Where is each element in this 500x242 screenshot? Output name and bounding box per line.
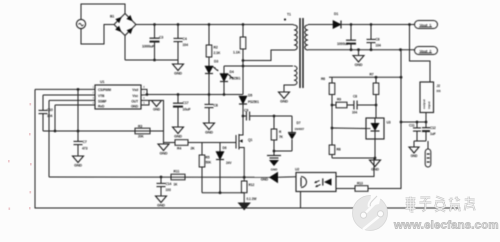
svg-text:104: 104 xyxy=(47,114,52,118)
svg-text:R4: R4 xyxy=(177,147,181,151)
capacitor C8 comp xyxy=(352,95,376,115)
ground GND6 xyxy=(152,101,162,112)
ground GND3 xyxy=(204,123,215,130)
resistor R2 2.1K xyxy=(206,25,221,58)
wire primary ground rail xyxy=(125,59,178,61)
svg-text:C9: C9 xyxy=(244,109,248,113)
svg-text:R9: R9 xyxy=(337,98,341,102)
svg-text:1000uF: 1000uF xyxy=(142,45,155,49)
capacitor C12 1uF xyxy=(422,122,436,141)
resistor R5 50K xyxy=(199,143,212,193)
svg-text:VTB: VTB xyxy=(98,94,105,98)
AC source V1 xyxy=(76,19,85,28)
ground GND2 xyxy=(173,127,184,134)
wire aux bottom xyxy=(284,85,294,92)
wire opto cathode xyxy=(336,188,355,190)
resistor R12 0.1 2W xyxy=(241,177,257,203)
watermark logo xyxy=(353,194,388,231)
wire sense line xyxy=(48,100,50,177)
svg-text:PS2501: PS2501 xyxy=(248,100,259,104)
svg-text:473: 473 xyxy=(82,147,88,151)
ground GND4 xyxy=(73,156,84,163)
svg-text:GND: GND xyxy=(174,72,182,76)
svg-text:C11: C11 xyxy=(409,124,415,128)
svg-text:Vsc: Vsc xyxy=(132,94,138,98)
capacitor C6 104 xyxy=(367,25,381,50)
svg-text:B1: B1 xyxy=(110,15,114,19)
wire pin2 left xyxy=(43,94,95,96)
svg-text:RvD: RvD xyxy=(98,105,105,109)
svg-text:GND: GND xyxy=(205,131,213,135)
resistor R8 xyxy=(329,145,341,158)
svg-text:C17: C17 xyxy=(183,101,189,105)
svg-text:R13: R13 xyxy=(357,182,363,186)
svg-text:50K: 50K xyxy=(206,161,212,165)
diode D5 PS2501 xyxy=(239,94,259,136)
svg-text:D5: D5 xyxy=(248,94,252,98)
wire aux winding top xyxy=(224,65,293,67)
transistor Q1 MOSFET xyxy=(234,116,253,177)
svg-text:D4: D4 xyxy=(230,70,234,74)
svg-text:GND: GND xyxy=(355,63,363,67)
wire IC gnd pin xyxy=(141,101,152,106)
resistor R13 xyxy=(355,182,368,192)
watermark chinese text xyxy=(406,197,475,212)
svg-text:GND: GND xyxy=(160,152,168,156)
wire opto collector line xyxy=(336,159,374,177)
wire cluster bottoms xyxy=(202,192,244,194)
capacitor C17 10uF xyxy=(173,95,191,128)
wire top rail xyxy=(136,24,293,26)
svg-text:1000uF: 1000uF xyxy=(337,42,350,46)
svg-text:GND: GND xyxy=(157,204,165,208)
svg-text:C12: C12 xyxy=(430,126,436,130)
svg-text:C6: C6 xyxy=(376,38,380,42)
svg-text:OUT: OUT xyxy=(131,100,138,104)
svg-text:C3: C3 xyxy=(159,36,163,40)
capacitor C9 xyxy=(243,109,292,121)
capacitor C7 473 xyxy=(74,89,88,156)
svg-text:GND: GND xyxy=(131,105,139,109)
resistor R6b 7K xyxy=(271,116,283,151)
ground GND9 xyxy=(239,203,250,210)
wire left frame xyxy=(35,89,460,208)
op-amp U1 PWM controller xyxy=(93,80,146,109)
capacitor C3 1000uF xyxy=(142,25,163,61)
wire output rail xyxy=(341,24,415,26)
resistor R3 xyxy=(135,125,150,139)
wire pin1 left xyxy=(35,88,95,90)
LED D3 xyxy=(205,57,218,95)
svg-text:C8: C8 xyxy=(353,95,357,99)
bridge rectifier B1 xyxy=(110,14,136,36)
resistor R1 1.1K xyxy=(233,25,246,55)
resistor R11 1K xyxy=(171,170,185,187)
svg-text:C8: C8 xyxy=(214,104,218,108)
zener D6 24V xyxy=(216,143,232,193)
wire OUT pin xyxy=(141,100,164,142)
wire to output module xyxy=(410,25,431,83)
resistor R7 divider xyxy=(370,73,379,119)
ground GND8 xyxy=(156,196,167,203)
wire caps gnd xyxy=(414,140,426,142)
svg-text:20K: 20K xyxy=(138,135,144,139)
optocoupler U2 xyxy=(295,168,336,192)
diode D1 xyxy=(333,12,341,29)
svg-text:D7: D7 xyxy=(297,121,301,125)
LED D4 PS2501 xyxy=(220,66,241,95)
node GND flag xyxy=(261,172,278,183)
zener D7 1N4007 xyxy=(288,116,305,151)
svg-text:C14: C14 xyxy=(166,182,172,186)
wire secondary top xyxy=(308,24,333,26)
svg-text:C4: C4 xyxy=(183,37,187,41)
wire AC bottom xyxy=(81,25,114,45)
wire secondary gnd rail xyxy=(332,157,375,159)
svg-text:D3: D3 xyxy=(214,60,218,64)
svg-text:D6: D6 xyxy=(223,146,227,150)
svg-text:GND: GND xyxy=(411,154,419,158)
svg-text:GND: GND xyxy=(174,135,182,139)
capacitor C4 104 xyxy=(174,25,189,61)
svg-text:GND: GND xyxy=(371,168,379,172)
svg-text:D1: D1 xyxy=(334,12,338,16)
svg-text:0.1 2W: 0.1 2W xyxy=(247,197,258,201)
wire primary bottom xyxy=(243,50,294,61)
svg-text:C7: C7 xyxy=(83,140,87,144)
svg-text:R5: R5 xyxy=(206,156,210,160)
fuse F1 xyxy=(425,141,431,167)
wire noise specks xyxy=(30,103,32,105)
svg-text:CS/PWM: CS/PWM xyxy=(98,88,111,92)
svg-text:Q1: Q1 xyxy=(248,138,253,142)
svg-text:U2: U2 xyxy=(295,168,299,172)
svg-text:R11: R11 xyxy=(174,170,180,174)
wire TL431 ref xyxy=(332,127,366,130)
svg-text:GND: GND xyxy=(153,108,161,112)
connector Vout_1 xyxy=(415,21,438,29)
wire R13 to rail xyxy=(368,50,401,189)
svg-text:104: 104 xyxy=(376,44,381,48)
svg-text:R3: R3 xyxy=(138,125,142,129)
ground GND12 xyxy=(409,141,419,158)
ground GND11 xyxy=(353,50,364,67)
svg-text:DS: DS xyxy=(437,89,441,93)
resistor R9 xyxy=(332,98,354,108)
wire Vsd pin xyxy=(141,89,147,94)
capacitor C8a xyxy=(205,95,218,124)
svg-text:U3: U3 xyxy=(387,121,391,125)
svg-text:1uF: 1uF xyxy=(430,132,436,136)
wire Vcc line xyxy=(147,94,243,96)
wire pin4 vertical xyxy=(54,105,56,131)
shunt regulator U3 TL431 xyxy=(366,118,391,139)
ground GND5 xyxy=(158,143,169,156)
svg-text:104: 104 xyxy=(352,111,357,115)
svg-text:C10: C10 xyxy=(47,108,53,112)
wire primary top xyxy=(293,24,294,27)
svg-text:Vsd: Vsd xyxy=(132,88,138,92)
svg-text:R2: R2 xyxy=(214,46,218,50)
svg-text:PS2501: PS2501 xyxy=(230,77,241,81)
svg-text:output: output xyxy=(422,99,426,109)
wire snubber gnd xyxy=(274,150,292,152)
wire feedback node xyxy=(43,130,164,132)
capacitor C10 104 xyxy=(39,95,54,131)
svg-text:1.1K: 1.1K xyxy=(233,51,241,55)
svg-text:www.elecfans.com: www.elecfans.com xyxy=(393,220,499,232)
connector J2 output xyxy=(420,82,441,113)
wire AC top xyxy=(81,4,125,19)
wire divider rail xyxy=(329,76,401,78)
wire R1 to aux node xyxy=(242,49,244,95)
ground GND7 xyxy=(267,151,281,172)
wire opto emitter to frame xyxy=(300,192,302,209)
ground GND1 xyxy=(173,60,184,76)
svg-text:103: 103 xyxy=(166,188,171,192)
svg-text:2.1K: 2.1K xyxy=(214,51,221,55)
svg-text:R7: R7 xyxy=(370,73,374,77)
capacitor C14 103 xyxy=(157,177,172,196)
svg-text:R12: R12 xyxy=(249,183,255,187)
svg-text:U1: U1 xyxy=(100,80,104,84)
svg-text:SSBF: SSBF xyxy=(98,100,106,104)
capacitor C11 xyxy=(409,122,421,141)
resistor R6 divider xyxy=(321,77,335,145)
svg-text:R6: R6 xyxy=(321,77,325,81)
resistor R4 2K xyxy=(164,140,235,151)
svg-text:input: input xyxy=(427,101,431,109)
svg-text:10uF: 10uF xyxy=(183,108,192,112)
ground GND10 xyxy=(279,92,290,99)
connector Vout_2 xyxy=(415,47,438,55)
wire Vsc pin xyxy=(141,94,147,96)
svg-text:GND: GND xyxy=(261,178,269,182)
svg-text:GND: GND xyxy=(271,168,278,172)
svg-text:R8: R8 xyxy=(337,148,341,152)
wire secondary bottom rail xyxy=(308,49,415,51)
svg-text:T1: T1 xyxy=(287,13,291,17)
transformer T1 xyxy=(284,13,308,89)
ground GND13 xyxy=(370,158,381,172)
svg-text:1N4007: 1N4007 xyxy=(295,127,305,131)
svg-text:GND: GND xyxy=(74,164,82,168)
wire pin4 left xyxy=(55,104,95,106)
svg-text:104: 104 xyxy=(183,43,189,47)
svg-text:GND: GND xyxy=(280,100,288,104)
svg-text:J2: J2 xyxy=(437,84,441,88)
capacitor C5 1000uF xyxy=(337,25,356,50)
svg-text:2K: 2K xyxy=(191,147,196,151)
wire pin3 left xyxy=(49,99,95,101)
wire module bottom xyxy=(425,113,427,123)
